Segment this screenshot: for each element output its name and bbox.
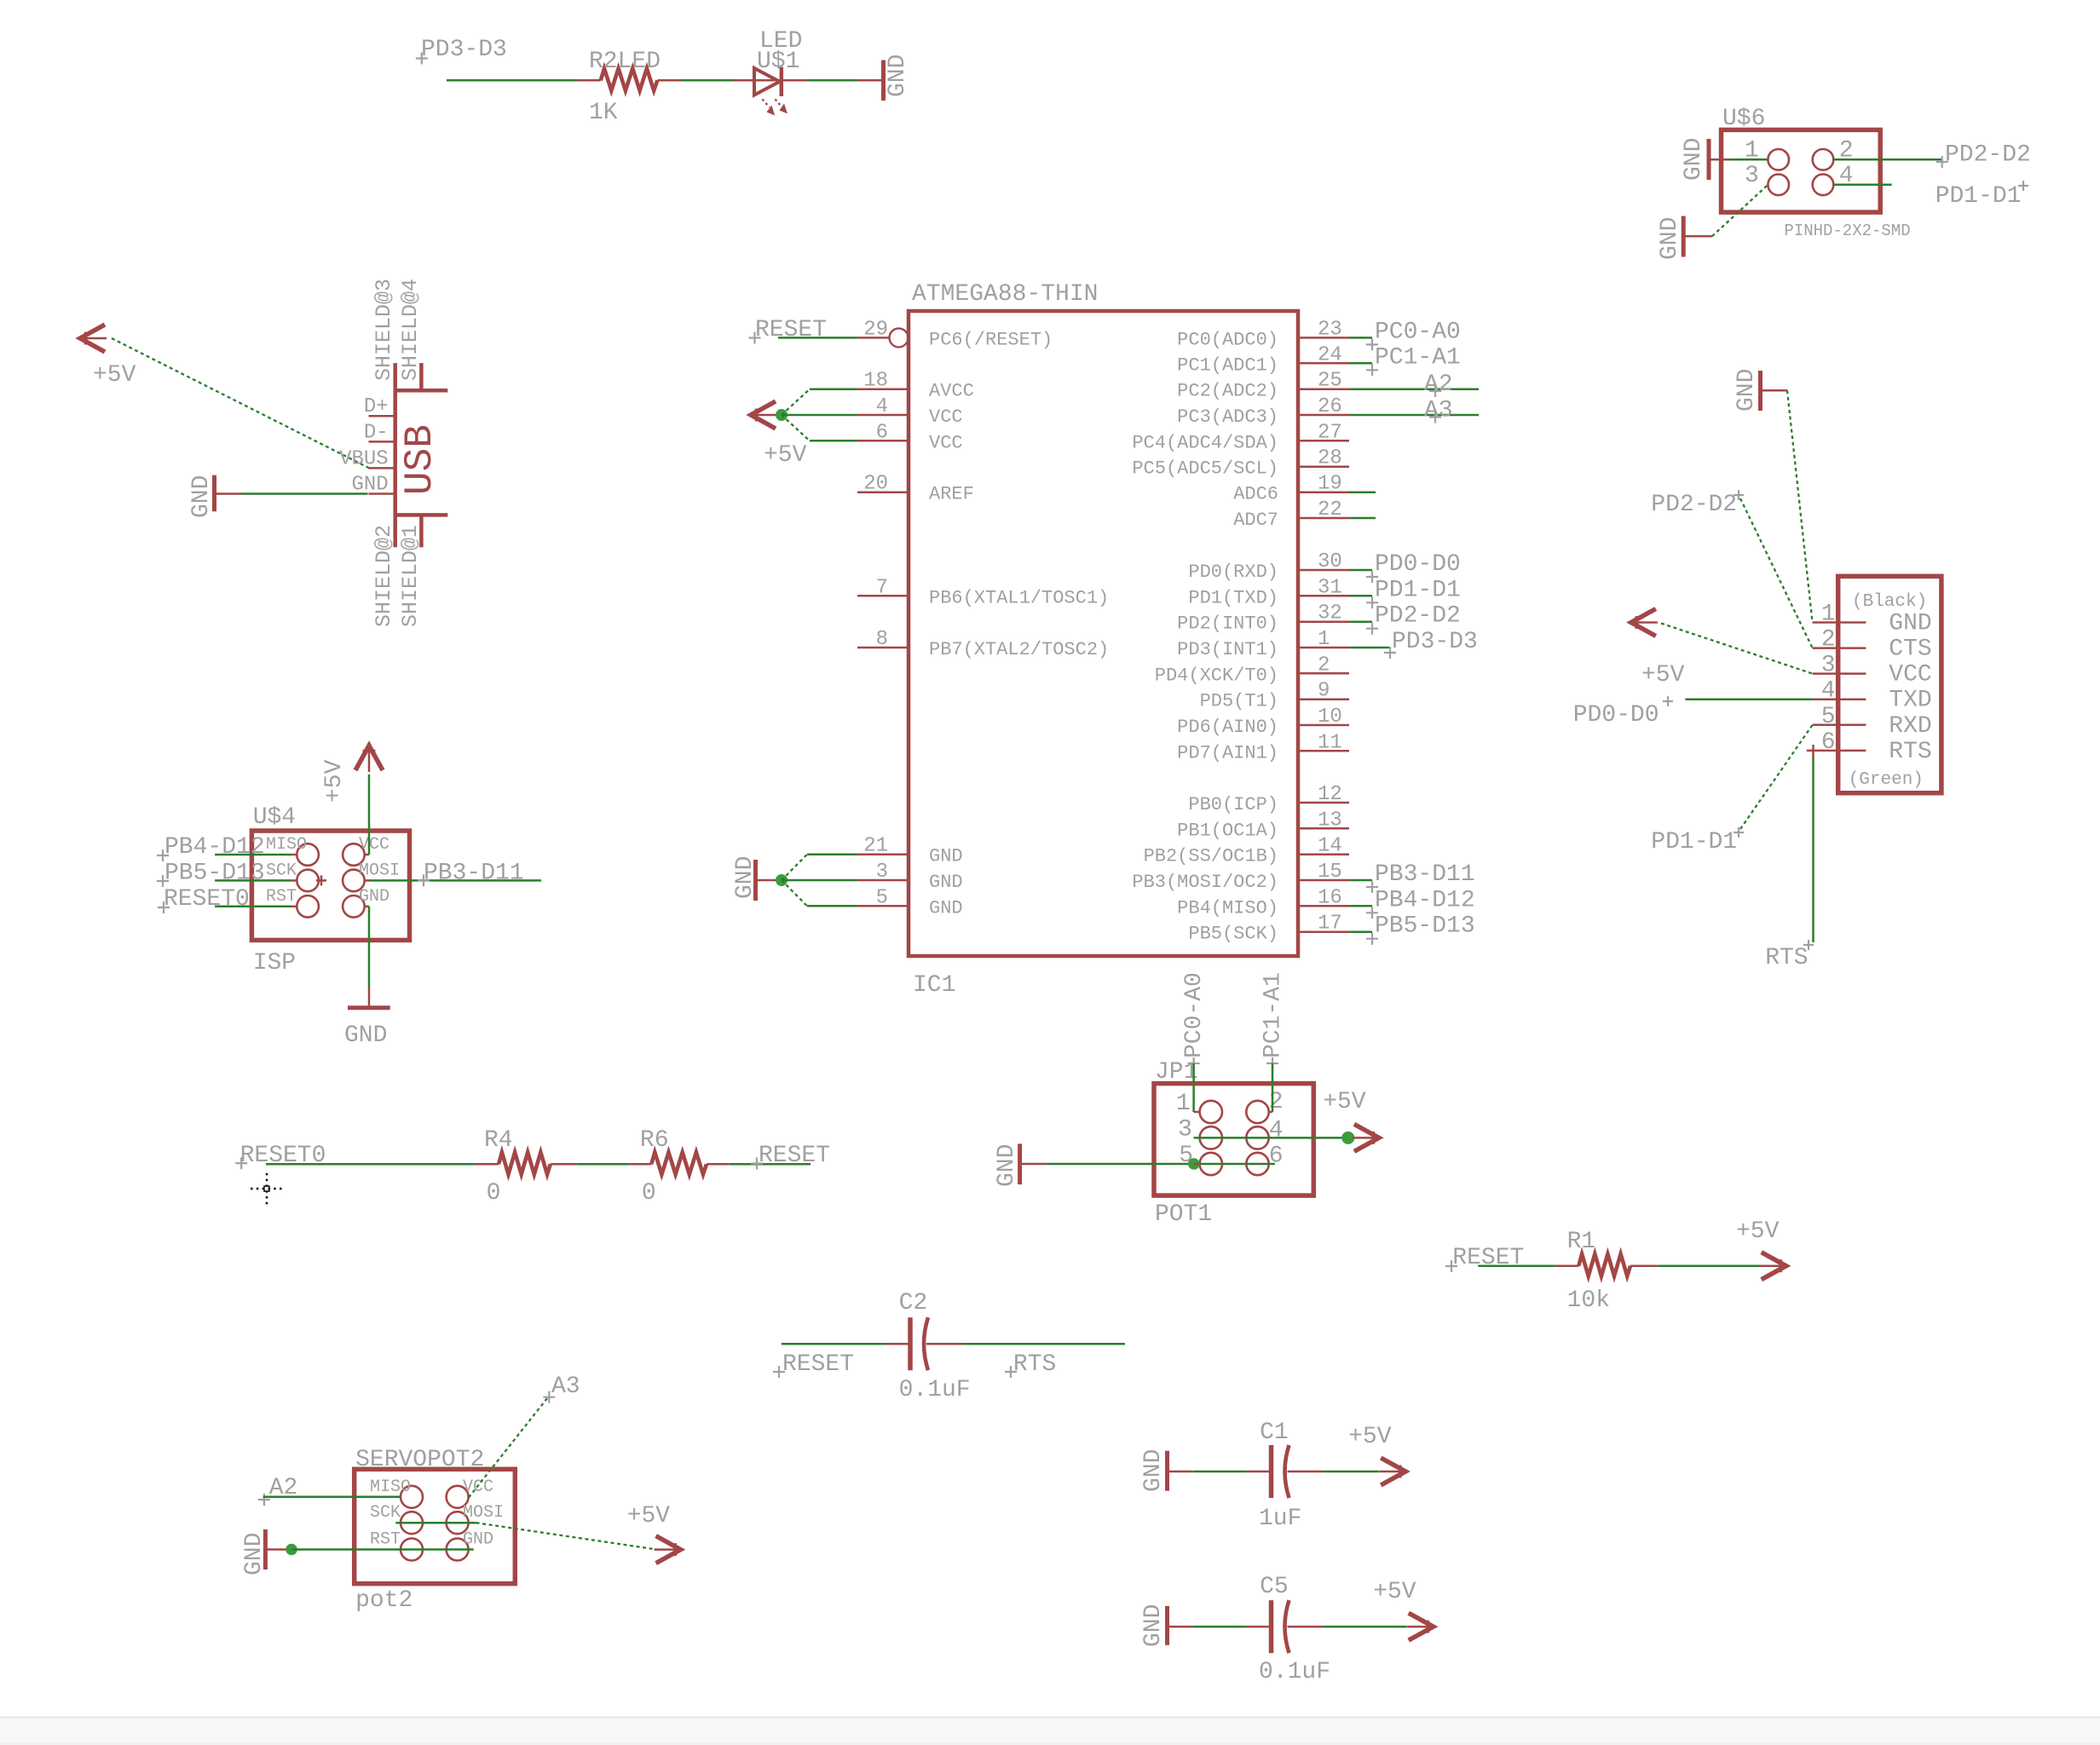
- svg-text:PB3-D11: PB3-D11: [424, 860, 524, 886]
- svg-text:RESET0: RESET0: [164, 886, 250, 913]
- svg-text:ISP: ISP: [253, 950, 296, 976]
- svg-text:RESET: RESET: [1452, 1245, 1524, 1271]
- svg-text:PB7(XTAL2/TOSC2): PB7(XTAL2/TOSC2): [929, 639, 1109, 660]
- svg-text:24: 24: [1318, 343, 1342, 366]
- svg-text:+5V: +5V: [1373, 1579, 1416, 1605]
- svg-text:AREF: AREF: [929, 484, 974, 505]
- svg-text:31: 31: [1318, 576, 1342, 599]
- svg-text:GND: GND: [344, 1022, 387, 1049]
- svg-text:1: 1: [1318, 628, 1330, 651]
- svg-text:PB5-D13: PB5-D13: [164, 860, 265, 886]
- svg-text:TXD: TXD: [1889, 688, 1931, 714]
- svg-text:GND: GND: [241, 1533, 268, 1575]
- svg-text:C2: C2: [899, 1290, 928, 1316]
- svg-text:RESET: RESET: [759, 1143, 830, 1169]
- svg-text:PD2-D2: PD2-D2: [1945, 142, 2031, 169]
- svg-text:GND: GND: [885, 55, 911, 97]
- svg-text:SHIELD@1: SHIELD@1: [398, 525, 423, 627]
- svg-text:(Green): (Green): [1849, 770, 1924, 790]
- svg-text:22: 22: [1318, 498, 1342, 521]
- svg-text:GND: GND: [732, 856, 759, 899]
- svg-text:PC1-A1: PC1-A1: [1261, 972, 1287, 1058]
- svg-text:C5: C5: [1260, 1574, 1289, 1600]
- svg-text:PB3-D11: PB3-D11: [1375, 861, 1475, 888]
- svg-text:PD0-D0: PD0-D0: [1375, 551, 1461, 578]
- svg-text:PB4(MISO): PB4(MISO): [1177, 897, 1278, 919]
- svg-text:3: 3: [1178, 1116, 1192, 1143]
- svg-text:C1: C1: [1260, 1420, 1289, 1446]
- svg-text:RTS: RTS: [1013, 1351, 1056, 1378]
- svg-text:D-: D-: [364, 421, 389, 444]
- svg-text:10: 10: [1318, 705, 1342, 729]
- svg-text:RST: RST: [266, 887, 297, 907]
- svg-text:PD3-D3: PD3-D3: [421, 37, 507, 63]
- svg-text:SCK: SCK: [370, 1503, 401, 1523]
- svg-text:pot2: pot2: [355, 1587, 412, 1614]
- svg-text:PD5(T1): PD5(T1): [1200, 691, 1278, 712]
- svg-text:+5V: +5V: [627, 1503, 671, 1529]
- svg-text:PD6(AIN0): PD6(AIN0): [1177, 717, 1278, 738]
- svg-text:RST: RST: [370, 1530, 401, 1550]
- svg-text:16: 16: [1318, 886, 1342, 909]
- svg-text:D+: D+: [364, 395, 389, 418]
- svg-text:10k: 10k: [1567, 1287, 1610, 1314]
- svg-text:PD3(INT1): PD3(INT1): [1177, 639, 1278, 660]
- svg-text:+5V: +5V: [93, 362, 136, 389]
- svg-text:PD2-D2: PD2-D2: [1375, 603, 1461, 630]
- svg-text:U$1: U$1: [757, 49, 799, 75]
- svg-text:3: 3: [1745, 163, 1759, 189]
- svg-text:SHIELD@3: SHIELD@3: [372, 279, 396, 381]
- svg-text:PD4(XCK/T0): PD4(XCK/T0): [1155, 665, 1278, 686]
- svg-text:14: 14: [1318, 835, 1342, 858]
- svg-text:15: 15: [1318, 861, 1342, 884]
- svg-text:0: 0: [487, 1180, 501, 1207]
- svg-text:PB6(XTAL1/TOSC1): PB6(XTAL1/TOSC1): [929, 587, 1109, 608]
- svg-text:GND: GND: [188, 475, 215, 518]
- svg-text:12: 12: [1318, 783, 1342, 806]
- svg-text:30: 30: [1318, 550, 1342, 573]
- svg-text:ATMEGA88-THIN: ATMEGA88-THIN: [912, 281, 1098, 308]
- svg-text:PD1(TXD): PD1(TXD): [1188, 587, 1278, 608]
- svg-text:2: 2: [1821, 627, 1836, 654]
- svg-text:PC2(ADC2): PC2(ADC2): [1177, 381, 1278, 402]
- svg-text:VCC: VCC: [929, 432, 963, 453]
- svg-text:VCC: VCC: [359, 835, 389, 855]
- svg-text:PC1-A1: PC1-A1: [1375, 344, 1461, 371]
- svg-text:+5V: +5V: [1641, 662, 1685, 688]
- svg-text:GND: GND: [929, 897, 963, 919]
- svg-text:4: 4: [1269, 1117, 1284, 1143]
- svg-text:+5V: +5V: [1323, 1089, 1366, 1115]
- svg-text:RXD: RXD: [1889, 713, 1931, 740]
- svg-text:PC5(ADC5/SCL): PC5(ADC5/SCL): [1132, 458, 1278, 480]
- svg-text:3: 3: [1821, 653, 1836, 679]
- svg-text:21: 21: [863, 835, 888, 858]
- svg-text:POT1: POT1: [1155, 1201, 1212, 1228]
- svg-text:PD2-D2: PD2-D2: [1651, 492, 1737, 518]
- svg-text:11: 11: [1318, 731, 1342, 754]
- svg-text:+5V: +5V: [321, 759, 348, 803]
- svg-text:32: 32: [1318, 602, 1342, 625]
- svg-text:20: 20: [863, 473, 888, 496]
- svg-text:1: 1: [1821, 602, 1836, 628]
- svg-text:SHIELD@2: SHIELD@2: [372, 525, 396, 627]
- svg-text:GND: GND: [1657, 217, 1683, 260]
- svg-text:SCK: SCK: [266, 861, 297, 880]
- svg-text:1: 1: [1176, 1091, 1191, 1117]
- svg-text:27: 27: [1318, 421, 1342, 444]
- svg-text:0: 0: [642, 1180, 656, 1207]
- svg-text:PB2(SS/OC1B): PB2(SS/OC1B): [1144, 846, 1278, 867]
- svg-text:PB5(SCK): PB5(SCK): [1188, 924, 1278, 945]
- svg-text:GND: GND: [929, 846, 963, 867]
- svg-text:RESET: RESET: [782, 1351, 854, 1378]
- svg-text:MOSI: MOSI: [463, 1503, 504, 1523]
- svg-text:GND: GND: [359, 887, 389, 907]
- svg-text:23: 23: [1318, 318, 1342, 341]
- svg-text:(Black): (Black): [1852, 592, 1927, 612]
- svg-text:GND: GND: [994, 1144, 1020, 1187]
- svg-text:5: 5: [876, 886, 888, 909]
- svg-text:3: 3: [876, 861, 888, 884]
- svg-text:PC1(ADC1): PC1(ADC1): [1177, 354, 1278, 376]
- svg-text:VCC: VCC: [929, 406, 963, 428]
- svg-text:2: 2: [1318, 654, 1330, 677]
- svg-text:R6: R6: [640, 1127, 669, 1154]
- svg-text:8: 8: [876, 628, 888, 651]
- svg-text:R1: R1: [1567, 1229, 1596, 1255]
- svg-text:PD1-D1: PD1-D1: [1375, 577, 1461, 603]
- svg-text:R2LED: R2LED: [589, 49, 661, 75]
- svg-text:PC6(/RESET): PC6(/RESET): [929, 329, 1053, 350]
- svg-text:1uF: 1uF: [1259, 1506, 1301, 1532]
- svg-text:MOSI: MOSI: [359, 861, 400, 880]
- svg-text:28: 28: [1318, 447, 1342, 470]
- svg-text:PD7(AIN1): PD7(AIN1): [1177, 742, 1278, 763]
- svg-text:PC0(ADC0): PC0(ADC0): [1177, 329, 1278, 350]
- svg-text:7: 7: [876, 576, 888, 599]
- svg-text:A3: A3: [1424, 397, 1453, 423]
- svg-text:GND: GND: [463, 1530, 493, 1550]
- svg-text:GND: GND: [929, 872, 963, 893]
- svg-text:29: 29: [863, 318, 888, 341]
- svg-text:PC4(ADC4/SDA): PC4(ADC4/SDA): [1132, 432, 1278, 453]
- svg-text:PC0-A0: PC0-A0: [1181, 972, 1208, 1058]
- svg-text:PC3(ADC3): PC3(ADC3): [1177, 406, 1278, 428]
- svg-text:GND: GND: [1889, 611, 1931, 637]
- svg-text:6: 6: [1269, 1143, 1284, 1170]
- svg-text:4: 4: [1821, 678, 1836, 705]
- svg-text:MISO: MISO: [266, 835, 307, 855]
- svg-text:PB0(ICP): PB0(ICP): [1188, 794, 1278, 815]
- svg-text:0.1uF: 0.1uF: [899, 1377, 971, 1403]
- svg-text:PB4-D12: PB4-D12: [164, 834, 265, 861]
- svg-text:RTS: RTS: [1765, 945, 1808, 971]
- svg-text:5: 5: [1821, 704, 1836, 730]
- svg-text:PB3(MOSI/OC2): PB3(MOSI/OC2): [1132, 872, 1278, 893]
- svg-text:PB5-D13: PB5-D13: [1375, 913, 1475, 940]
- svg-text:26: 26: [1318, 395, 1342, 418]
- svg-text:PD1-D1: PD1-D1: [1936, 183, 2022, 210]
- svg-text:18: 18: [863, 370, 888, 393]
- svg-text:GND: GND: [1681, 138, 1707, 181]
- svg-text:PB1(OC1A): PB1(OC1A): [1177, 820, 1278, 841]
- svg-text:ADC6: ADC6: [1233, 484, 1278, 505]
- svg-text:AVCC: AVCC: [929, 381, 974, 402]
- svg-text:PB4-D12: PB4-D12: [1375, 887, 1475, 913]
- svg-text:IC1: IC1: [913, 972, 955, 999]
- svg-text:A2: A2: [1424, 371, 1453, 398]
- svg-text:19: 19: [1318, 473, 1342, 496]
- svg-text:+5V: +5V: [1348, 1424, 1392, 1450]
- svg-text:PD2(INT0): PD2(INT0): [1177, 613, 1278, 635]
- svg-text:U$4: U$4: [253, 804, 296, 831]
- svg-text:17: 17: [1318, 913, 1342, 936]
- svg-text:SHIELD@4: SHIELD@4: [398, 279, 423, 381]
- svg-text:PINHD-2X2-SMD: PINHD-2X2-SMD: [1784, 222, 1910, 240]
- svg-text:PD3-D3: PD3-D3: [1392, 629, 1478, 655]
- svg-text:ADC7: ADC7: [1233, 510, 1278, 531]
- svg-text:9: 9: [1318, 680, 1330, 703]
- svg-text:PC0-A0: PC0-A0: [1375, 319, 1461, 345]
- svg-text:A3: A3: [551, 1374, 580, 1400]
- svg-text:0.1uF: 0.1uF: [1259, 1659, 1330, 1685]
- svg-text:4: 4: [876, 395, 888, 418]
- svg-text:25: 25: [1318, 370, 1342, 393]
- svg-text:CTS: CTS: [1889, 636, 1931, 663]
- svg-text:13: 13: [1318, 809, 1342, 832]
- svg-text:USB: USB: [398, 424, 442, 495]
- svg-text:PD0(RXD): PD0(RXD): [1188, 562, 1278, 583]
- svg-text:RESET: RESET: [755, 317, 827, 343]
- svg-text:+5V: +5V: [764, 442, 807, 469]
- svg-text:+5V: +5V: [1736, 1218, 1780, 1245]
- svg-text:6: 6: [1821, 729, 1836, 756]
- svg-text:6: 6: [876, 421, 888, 444]
- svg-text:RTS: RTS: [1889, 739, 1931, 765]
- svg-text:GND: GND: [1734, 369, 1760, 412]
- svg-text:PD0-D0: PD0-D0: [1573, 702, 1659, 729]
- svg-text:GND: GND: [1140, 1604, 1167, 1647]
- svg-text:GND: GND: [1140, 1449, 1167, 1492]
- svg-text:1K: 1K: [589, 100, 618, 126]
- svg-text:MISO: MISO: [370, 1477, 411, 1497]
- svg-text:R4: R4: [484, 1127, 513, 1154]
- svg-text:VBUS: VBUS: [339, 447, 389, 470]
- svg-text:PD1-D1: PD1-D1: [1651, 829, 1737, 855]
- svg-text:VCC: VCC: [1889, 662, 1931, 688]
